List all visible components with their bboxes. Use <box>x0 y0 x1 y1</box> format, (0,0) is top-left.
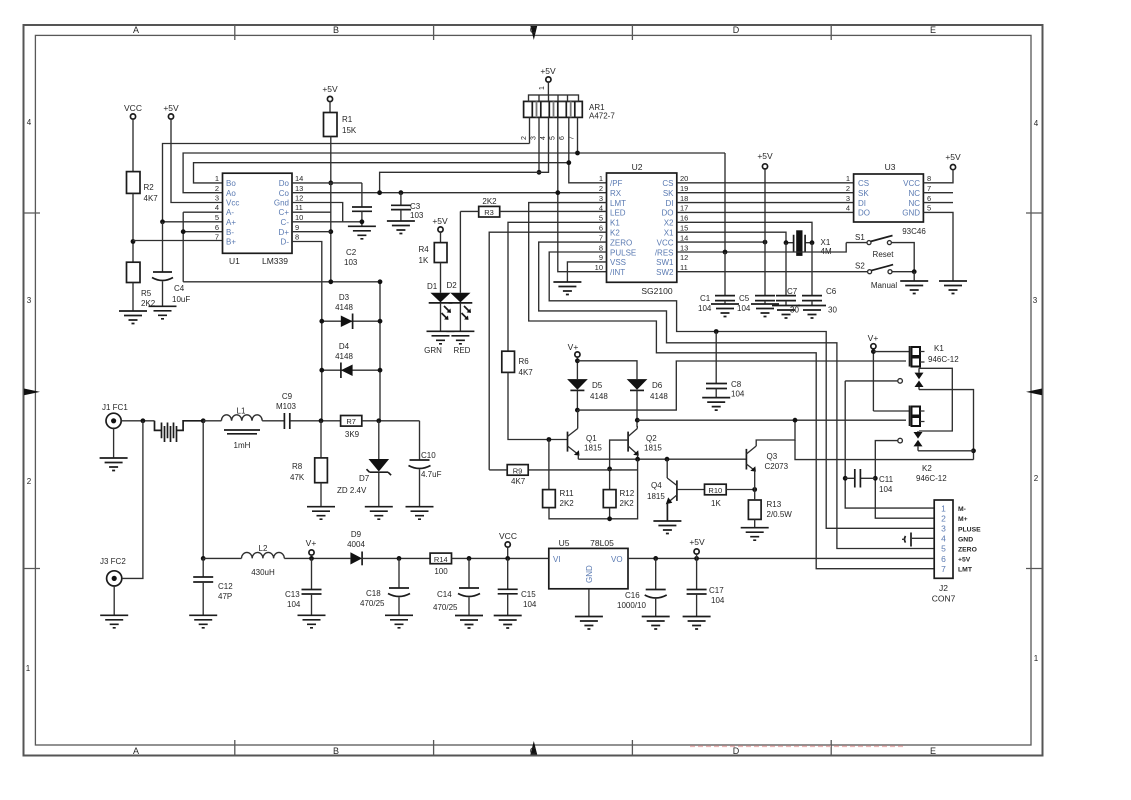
svg-text:946C-12: 946C-12 <box>928 355 959 364</box>
svg-text:C8: C8 <box>731 380 742 389</box>
svg-text:PLUSE: PLUSE <box>958 526 981 533</box>
svg-text:C18: C18 <box>366 589 381 598</box>
svg-text:R13: R13 <box>767 500 782 509</box>
zone ticks top <box>235 25 831 40</box>
mid arrow left <box>24 389 40 396</box>
svg-text:VCC: VCC <box>657 238 674 247</box>
svg-text:GRN: GRN <box>424 346 442 355</box>
transistor Q3 <box>745 449 747 470</box>
svg-text:D4: D4 <box>339 342 350 351</box>
svg-text:11: 11 <box>295 203 303 212</box>
svg-text:A: A <box>133 25 139 35</box>
svg-text:Q3: Q3 <box>767 452 778 461</box>
wire PULSE staircase <box>549 252 934 528</box>
svg-text:1mH: 1mH <box>234 441 251 450</box>
ground <box>385 615 413 628</box>
wire C6 column <box>811 243 813 295</box>
wire AR1 pin3 <box>538 117 540 172</box>
wire Q3 emitter to R13 <box>754 471 756 490</box>
svg-text:U2: U2 <box>632 162 643 172</box>
capacitor C18 <box>398 558 400 587</box>
svg-text:V+: V+ <box>306 538 317 548</box>
wire R6 to Q1 base <box>508 372 568 439</box>
svg-text:9: 9 <box>295 223 299 232</box>
svg-text:6: 6 <box>215 223 219 232</box>
svg-text:2K2: 2K2 <box>560 499 575 508</box>
capacitor C3 <box>399 190 404 195</box>
capacitor C1 <box>715 296 735 301</box>
svg-text:11: 11 <box>680 263 688 272</box>
svg-text:C2: C2 <box>346 248 357 257</box>
wire X2 row to C6 column <box>677 222 812 242</box>
pink dashes bottom <box>690 745 905 747</box>
svg-text:R12: R12 <box>620 489 635 498</box>
svg-text:1K: 1K <box>711 499 721 508</box>
svg-text:2: 2 <box>1034 474 1039 483</box>
svg-text:VCC: VCC <box>499 531 517 541</box>
svg-text:B+: B+ <box>226 238 236 247</box>
svg-text:J3 FC2: J3 FC2 <box>100 557 126 566</box>
U1 right pin numbers <box>295 174 303 242</box>
svg-text:3: 3 <box>27 296 32 305</box>
wire V+ to K2 coil <box>873 410 909 412</box>
svg-text:78L05: 78L05 <box>590 538 614 548</box>
wire C4 lead <box>162 222 164 272</box>
zone ticks right <box>1026 213 1043 569</box>
ground <box>711 304 739 317</box>
svg-text:1000/10: 1000/10 <box>617 601 646 610</box>
svg-text:R4: R4 <box>419 245 430 254</box>
wire emitter rail <box>578 458 746 460</box>
svg-text:3K9: 3K9 <box>345 430 360 439</box>
ground <box>751 304 779 317</box>
svg-text:17: 17 <box>680 204 688 213</box>
wire K2 row riser to R9 <box>489 232 606 470</box>
svg-text:VSS: VSS <box>610 258 626 267</box>
wire Q3 collector <box>756 420 795 446</box>
wire D5 node to K1 coil feed <box>577 361 906 410</box>
svg-text:6: 6 <box>941 554 946 564</box>
svg-text:ZERO: ZERO <box>610 238 632 247</box>
svg-text:Do: Do <box>279 179 290 188</box>
wire AR1 pin5 long vertical to U2 pin10 <box>558 117 607 271</box>
ground <box>939 281 967 294</box>
svg-text:18: 18 <box>680 194 688 203</box>
svg-text:1815: 1815 <box>644 444 662 453</box>
svg-text:7: 7 <box>215 233 219 242</box>
ground <box>900 281 928 294</box>
svg-text:13: 13 <box>680 243 688 252</box>
svg-text:4148: 4148 <box>650 392 668 401</box>
svg-text:5: 5 <box>941 544 946 554</box>
svg-text:V+: V+ <box>568 342 579 352</box>
svg-text:B: B <box>333 746 339 756</box>
wire U3 pin7 pin6 stubs <box>923 193 953 203</box>
ground <box>653 521 681 534</box>
svg-text:104: 104 <box>287 600 301 609</box>
svg-text:4K7: 4K7 <box>519 368 534 377</box>
svg-text:4148: 4148 <box>590 392 608 401</box>
svg-text:4: 4 <box>1034 119 1039 128</box>
svg-text:5: 5 <box>550 136 557 140</box>
svg-text:8: 8 <box>927 174 931 183</box>
svg-text:X2: X2 <box>664 219 674 228</box>
svg-text:+5V: +5V <box>540 66 556 76</box>
svg-text:103: 103 <box>344 258 358 267</box>
svg-text:C7: C7 <box>787 287 798 296</box>
resistor R10 boxed <box>705 484 727 495</box>
wire V+ to D6 <box>577 361 637 379</box>
svg-text:15K: 15K <box>342 126 357 135</box>
ground <box>642 617 670 630</box>
resistor R9 boxed <box>507 465 528 476</box>
svg-text:4: 4 <box>540 136 547 140</box>
capacitor C11 <box>843 476 848 481</box>
svg-text:5: 5 <box>215 213 219 222</box>
junction A+ / C4 <box>160 219 165 224</box>
svg-text:1K: 1K <box>419 256 429 265</box>
relay K1 contact <box>898 379 903 384</box>
svg-text:R8: R8 <box>292 462 303 471</box>
svg-text:RED: RED <box>454 346 471 355</box>
U1 left pin numbers <box>215 174 219 242</box>
relay K2 coil <box>909 406 911 427</box>
wire row C turns down to /RES C1 <box>724 153 726 252</box>
svg-text:RX: RX <box>610 189 622 198</box>
svg-text:CON7: CON7 <box>932 594 956 604</box>
svg-text:10: 10 <box>295 213 303 222</box>
wire ZERO staircase <box>539 242 935 548</box>
svg-text:C14: C14 <box>437 590 452 599</box>
ground D2 <box>446 331 474 344</box>
capacitor C10 <box>419 421 421 460</box>
ground <box>406 507 434 520</box>
U1 pin4 wire <box>183 211 222 213</box>
wire R5 to ground <box>132 283 134 312</box>
capacitor C2 <box>361 183 363 207</box>
svg-text:C12: C12 <box>218 582 233 591</box>
capacitor C13 <box>311 558 313 589</box>
svg-text:7: 7 <box>569 136 576 140</box>
svg-text:A-: A- <box>226 208 234 217</box>
ground <box>189 615 217 628</box>
svg-text:10: 10 <box>595 263 603 272</box>
svg-text:C: C <box>530 25 537 35</box>
capacitor C15 <box>507 558 509 588</box>
svg-text:3: 3 <box>941 524 946 534</box>
wire J1 node down to L2 row <box>202 421 204 559</box>
wire row9 D+ <box>292 231 331 233</box>
zone ticks left <box>24 213 41 569</box>
svg-text:U1: U1 <box>229 256 240 266</box>
svg-text:R2: R2 <box>144 183 155 192</box>
capacitor C4 <box>153 271 172 273</box>
wire U3 pin8 to +5V <box>923 170 953 183</box>
wire DO row <box>677 211 854 213</box>
svg-text:VI: VI <box>553 555 561 564</box>
wire VCC to R2 <box>132 119 134 172</box>
J2 pin4 gnd cap symbol <box>912 537 934 539</box>
capacitor C14 <box>468 558 470 587</box>
svg-text:+5V: +5V <box>432 216 448 226</box>
svg-text:9: 9 <box>599 253 603 262</box>
svg-text:C10: C10 <box>421 451 436 460</box>
svg-text:A+: A+ <box>226 218 236 227</box>
wire R7 to C10 <box>362 420 420 422</box>
ground <box>553 282 581 295</box>
svg-text:R1: R1 <box>342 115 353 124</box>
svg-text:M+: M+ <box>958 516 968 523</box>
wire Q4 base to R10 <box>677 489 705 491</box>
svg-text:Q4: Q4 <box>651 481 662 490</box>
svg-text:8: 8 <box>295 233 299 242</box>
capacitor C5 <box>755 296 775 301</box>
wire row13 Co long line to U2 pin2 <box>292 192 607 194</box>
wire row C : U1 pin2 riser <box>183 153 725 193</box>
svg-text:VO: VO <box>611 555 623 564</box>
svg-text:C17: C17 <box>709 586 724 595</box>
svg-text:1: 1 <box>599 174 603 183</box>
diode D4 <box>322 369 380 371</box>
svg-text:Ao: Ao <box>226 189 236 198</box>
svg-text:SG2100: SG2100 <box>641 286 672 296</box>
wire D6/Q2 node to K2 coil feed <box>637 419 906 421</box>
svg-text:R7: R7 <box>346 417 356 426</box>
wire R10 to R13 node <box>726 489 755 491</box>
svg-text:LMT: LMT <box>610 199 626 208</box>
ground <box>772 306 800 319</box>
svg-text:K2: K2 <box>922 464 932 473</box>
resistor R6 <box>502 351 515 372</box>
U1 right pin names <box>274 179 290 247</box>
resistor R14 boxed <box>430 553 451 564</box>
wire row B : U1 pin1 riser <box>194 163 569 183</box>
ground <box>100 458 128 471</box>
svg-text:Bo: Bo <box>226 179 236 188</box>
svg-text:Vcc: Vcc <box>226 199 239 208</box>
svg-text:PULSE: PULSE <box>610 248 636 257</box>
resistor R1 <box>329 102 331 113</box>
svg-text:DI: DI <box>666 199 674 208</box>
svg-text:+5V: +5V <box>322 84 338 94</box>
svg-text:C9: C9 <box>282 392 293 401</box>
zone ticks bottom <box>235 740 831 756</box>
mid arrow right <box>1026 389 1042 396</box>
svg-text:/PF: /PF <box>610 179 623 188</box>
resistor array AR1 body <box>524 101 583 117</box>
wire U1 column row14-row9-bus <box>330 183 332 282</box>
svg-text:D6: D6 <box>652 381 663 390</box>
svg-text:C-: C- <box>281 218 290 227</box>
svg-text:1815: 1815 <box>647 492 665 501</box>
svg-text:2: 2 <box>941 513 946 523</box>
svg-text:2: 2 <box>846 184 850 193</box>
svg-text:R5: R5 <box>141 289 152 298</box>
op-amp U1 LM339 box <box>223 173 293 253</box>
svg-text:3: 3 <box>1033 296 1038 305</box>
svg-text:D5: D5 <box>592 381 603 390</box>
svg-text:D2: D2 <box>447 281 458 290</box>
svg-text:SW2: SW2 <box>656 268 674 277</box>
svg-text:R9: R9 <box>513 466 523 475</box>
svg-text:CS: CS <box>662 179 673 188</box>
svg-text:47P: 47P <box>218 592 232 601</box>
wire SK row <box>677 192 854 194</box>
svg-text:R14: R14 <box>434 555 448 564</box>
svg-text:19: 19 <box>680 184 688 193</box>
svg-text:L2: L2 <box>259 544 268 553</box>
svg-text:12: 12 <box>680 253 688 262</box>
relay K2 contact <box>914 432 923 439</box>
svg-text:30: 30 <box>790 306 799 315</box>
wire /RES row to S1 riser <box>677 243 846 252</box>
svg-text:430uH: 430uH <box>251 568 275 577</box>
svg-text:C5: C5 <box>739 294 750 303</box>
svg-text:K2: K2 <box>610 229 620 238</box>
transistor Q4 (mirrored) <box>676 480 678 501</box>
svg-text:L1: L1 <box>237 407 246 416</box>
wire AR1 pin7 to row C <box>577 117 579 153</box>
svg-text:SK: SK <box>858 189 869 198</box>
svg-text:5: 5 <box>927 204 931 213</box>
svg-text:4: 4 <box>941 534 946 544</box>
wire row6 B- riser to lower bus <box>183 231 222 233</box>
svg-text:104: 104 <box>523 600 537 609</box>
wire C1 column <box>724 252 726 295</box>
svg-text:/INT: /INT <box>610 268 625 277</box>
svg-text:2/0.5W: 2/0.5W <box>767 510 793 519</box>
ground D1 <box>427 331 455 344</box>
svg-text:6: 6 <box>927 194 931 203</box>
wire right column bus to J1 row <box>379 282 381 421</box>
wire row12 Gnd jog to C2 bottom <box>292 203 362 222</box>
svg-text:R11: R11 <box>560 489 575 498</box>
ground <box>575 617 603 630</box>
svg-text:DI: DI <box>858 199 866 208</box>
svg-text:470/25: 470/25 <box>360 599 385 608</box>
svg-text:4: 4 <box>846 204 850 213</box>
wire AR1 pin6 to row B and U2 pin1 <box>569 117 607 182</box>
svg-text:A472-7: A472-7 <box>589 112 615 121</box>
svg-text:4.7uF: 4.7uF <box>421 470 442 479</box>
svg-text:GND: GND <box>902 209 920 218</box>
ground <box>387 221 415 234</box>
svg-text:X1: X1 <box>821 238 831 247</box>
ground <box>348 226 376 239</box>
svg-text:C3: C3 <box>410 202 421 211</box>
capacitor C6 <box>802 296 822 301</box>
svg-text:1: 1 <box>941 503 946 513</box>
wire C7 column <box>785 243 787 295</box>
mid arrow bottom <box>530 741 537 755</box>
svg-text:2K2: 2K2 <box>482 197 497 206</box>
crystal X1 <box>786 242 812 244</box>
svg-text:2: 2 <box>27 477 32 486</box>
ground <box>100 615 128 628</box>
ground <box>683 617 711 630</box>
svg-text:1815: 1815 <box>584 444 602 453</box>
wire V+ to K1 coil <box>873 351 909 353</box>
svg-text:Manual: Manual <box>871 281 897 290</box>
svg-text:104: 104 <box>737 304 751 313</box>
svg-text:13: 13 <box>295 184 303 193</box>
svg-text:C1: C1 <box>700 294 711 303</box>
svg-text:D1: D1 <box>427 282 438 291</box>
wire R11 hang <box>548 440 550 490</box>
svg-text:104: 104 <box>879 485 893 494</box>
svg-text:3: 3 <box>215 194 219 203</box>
diode D5 <box>567 379 588 390</box>
svg-text:47K: 47K <box>290 473 305 482</box>
svg-text:14: 14 <box>295 174 303 183</box>
svg-text:C+: C+ <box>279 208 290 217</box>
wire R4 to D1 <box>440 263 442 293</box>
svg-text:16: 16 <box>680 214 688 223</box>
svg-text:7: 7 <box>599 233 603 242</box>
svg-text:Co: Co <box>279 189 290 198</box>
svg-text:Gnd: Gnd <box>274 199 289 208</box>
svg-text:2: 2 <box>599 184 603 193</box>
svg-text:2: 2 <box>521 136 528 140</box>
svg-text:C6: C6 <box>826 287 837 296</box>
svg-text:4004: 4004 <box>347 540 365 549</box>
wire SW2 row to S2 <box>677 271 867 273</box>
svg-text:A: A <box>133 746 139 756</box>
svg-text:1: 1 <box>26 664 31 673</box>
capacitor C8 <box>715 332 717 384</box>
wire row8 D- riser down <box>292 242 322 421</box>
svg-text:C15: C15 <box>521 590 536 599</box>
svg-text:E: E <box>930 25 936 35</box>
svg-text:+5V: +5V <box>163 103 179 113</box>
diode D6 <box>627 379 648 390</box>
svg-text:LM339: LM339 <box>262 256 288 266</box>
wire bottom rail R11 R12 Q2e <box>549 459 638 519</box>
wire Q2 base jog <box>610 440 629 490</box>
svg-text:Reset: Reset <box>873 250 895 259</box>
svg-text:C2073: C2073 <box>765 462 789 471</box>
svg-text:DO: DO <box>858 209 870 218</box>
svg-text:V+: V+ <box>868 333 879 343</box>
svg-text:S2: S2 <box>855 262 865 271</box>
svg-text:7: 7 <box>927 184 931 193</box>
wire row10 C- <box>292 221 343 223</box>
svg-text:30: 30 <box>828 306 837 315</box>
ground <box>455 616 483 629</box>
svg-text:K1: K1 <box>934 344 944 353</box>
svg-text:DO: DO <box>662 209 674 218</box>
svg-text:D7: D7 <box>359 474 370 483</box>
svg-text:VCC: VCC <box>903 179 920 188</box>
wire CS row <box>677 182 854 184</box>
capacitor C16 <box>655 558 657 589</box>
svg-text:K1: K1 <box>610 219 620 228</box>
svg-text:4148: 4148 <box>335 303 353 312</box>
svg-text:SK: SK <box>663 189 674 198</box>
wire row A : C4/A+ riser to AR1 pin2 <box>163 144 530 222</box>
svg-text:4K7: 4K7 <box>144 194 159 203</box>
svg-text:+5V: +5V <box>945 152 961 162</box>
svg-text:C: C <box>530 746 537 756</box>
svg-text:Q2: Q2 <box>646 434 657 443</box>
svg-text:946C-12: 946C-12 <box>916 474 947 483</box>
svg-text:2K2: 2K2 <box>620 499 635 508</box>
svg-text:NC: NC <box>908 189 920 198</box>
ground <box>307 507 335 520</box>
svg-text:5: 5 <box>599 214 603 223</box>
svg-text:ZERO: ZERO <box>958 547 977 554</box>
svg-text:E: E <box>930 746 936 756</box>
